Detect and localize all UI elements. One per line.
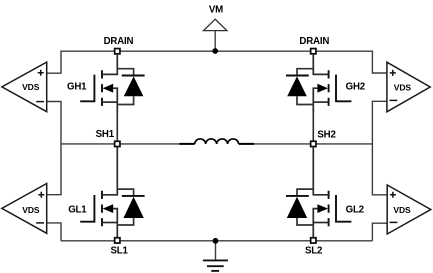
node GND junction dot bbox=[213, 238, 219, 244]
transistor Q1 high-side left (GH1) bbox=[80, 55, 117, 112]
svg-text:SL1: SL1 bbox=[111, 245, 129, 256]
svg-text:VM: VM bbox=[209, 4, 223, 15]
inductor L1 (motor winding) bbox=[179, 139, 254, 144]
wire right outer: -in of top VDS down to +in of bottom VDS bbox=[372, 101, 387, 195]
wire source of Q1 down to SH1 node bbox=[116, 110, 118, 140]
svg-text:SH2: SH2 bbox=[317, 129, 335, 140]
node SL2 terminal square bbox=[311, 238, 316, 243]
wire right outer: rail to +in of top VDS bbox=[372, 51, 387, 74]
wire top rail (VM rail) bbox=[61, 50, 372, 52]
node DRAIN left terminal square bbox=[115, 49, 120, 54]
svg-text:VDS: VDS bbox=[393, 205, 411, 215]
wire mid rail right (SH row) bbox=[239, 143, 373, 145]
wire left outer: rail to +in of top VDS bbox=[47, 51, 61, 74]
wire mid rail left (SH row) bbox=[61, 143, 195, 145]
svg-text:DRAIN: DRAIN bbox=[299, 36, 329, 47]
transistor Q4 low-side right (GL2) bbox=[313, 147, 351, 237]
node SL1 terminal square bbox=[115, 238, 120, 243]
transistor Q3 low-side left (GL1) bbox=[80, 147, 117, 237]
wire right outer: -in of bottom VDS to GND rail bbox=[372, 223, 387, 241]
body diode D1 bbox=[117, 69, 144, 105]
wire source of Q2 down to SH2 node bbox=[312, 110, 314, 140]
svg-text:VDS: VDS bbox=[22, 205, 40, 215]
power VM symbol bbox=[204, 19, 227, 51]
svg-text:GL2: GL2 bbox=[346, 205, 364, 216]
wire left outer: -in of bottom VDS to GND rail bbox=[47, 223, 61, 241]
comparator VDS top-left bbox=[2, 62, 47, 112]
svg-text:VDS: VDS bbox=[394, 83, 412, 93]
svg-text:GL1: GL1 bbox=[68, 205, 87, 216]
comparator VDS top-right bbox=[387, 62, 430, 112]
body diode D2 bbox=[286, 69, 313, 105]
svg-text:DRAIN: DRAIN bbox=[104, 36, 134, 47]
svg-text:VDS: VDS bbox=[22, 82, 40, 92]
node VM junction dot bbox=[212, 48, 218, 54]
svg-text:GH1: GH1 bbox=[67, 82, 87, 93]
ground bbox=[203, 241, 228, 271]
node DRAIN right terminal square bbox=[311, 49, 316, 54]
svg-text:GH2: GH2 bbox=[346, 82, 365, 93]
wire bottom rail (GND rail) bbox=[61, 240, 372, 242]
transistor Q2 high-side right (GH2) bbox=[313, 55, 351, 112]
comparator VDS bottom-left bbox=[2, 184, 47, 234]
svg-text:SH1: SH1 bbox=[96, 129, 115, 140]
body diode D3 bbox=[117, 189, 144, 225]
comparator VDS bottom-right bbox=[387, 185, 431, 234]
wire left outer: -in of top VDS down to +in of bottom VDS bbox=[47, 102, 61, 195]
svg-text:SL2: SL2 bbox=[305, 245, 322, 256]
node SH1 terminal square bbox=[115, 141, 120, 146]
node SH2 terminal square bbox=[311, 141, 316, 146]
body diode D4 bbox=[286, 189, 313, 225]
